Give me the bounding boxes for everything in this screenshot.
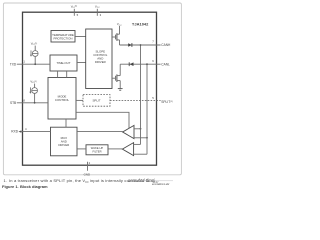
node: STB / I2 junction xyxy=(34,102,36,104)
svg-text:TJA1042: TJA1042 xyxy=(132,21,149,26)
block: temperature protection xyxy=(51,31,75,43)
wire: U1 input from CANH xyxy=(134,128,141,130)
svg-text:Block diagram: Block diagram xyxy=(20,184,48,189)
svg-text:DRIVER: DRIVER xyxy=(58,143,69,147)
wire: U1 input from CANL xyxy=(134,137,147,139)
pin SPLIT xyxy=(152,96,173,104)
block: mux and driver xyxy=(51,127,78,156)
svg-text:GND: GND xyxy=(84,173,90,177)
wire: mode control to mux xyxy=(65,119,67,127)
wire: mode control to SPLIT driver xyxy=(76,99,83,101)
block: time-out xyxy=(50,55,77,71)
pin GND xyxy=(84,161,91,176)
IC boundary box TJA1042 xyxy=(23,12,157,165)
transistor Q2 (low-side NMOS) xyxy=(112,64,120,88)
current source I2 (STB pull-up) xyxy=(29,80,37,103)
svg-text:1.: 1. xyxy=(4,178,7,183)
svg-text:CANH: CANH xyxy=(161,43,171,47)
svg-text:PROTECTION: PROTECTION xyxy=(54,37,73,41)
svg-text:TIME-OUT: TIME-OUT xyxy=(57,61,71,65)
svg-text:CONTROL: CONTROL xyxy=(55,98,70,102)
svg-text:STB: STB xyxy=(10,101,16,105)
svg-text:RXD: RXD xyxy=(11,130,18,134)
wire: time-out to mode control right xyxy=(66,71,68,78)
wire: time-out to mode control left xyxy=(57,71,59,78)
pin CANH xyxy=(152,40,171,48)
block: mode control xyxy=(48,78,76,120)
svg-text:FILTER: FILTER xyxy=(92,149,101,153)
node: CANH wire / U1 input xyxy=(140,128,142,130)
node: CANL line junction xyxy=(146,63,148,65)
watermark xyxy=(128,178,173,186)
svg-text:SPLIT: SPLIT xyxy=(92,99,100,103)
current source I1 (TXD pull-up) xyxy=(30,42,38,65)
wire: temperature protection to slope control xyxy=(75,36,86,38)
diode D2 (CANL) xyxy=(129,62,133,66)
pin VIO top xyxy=(71,4,79,16)
svg-text:DRIVER: DRIVER xyxy=(95,60,106,64)
wire: U2 input from CANL xyxy=(134,153,147,155)
block: slope control and driver xyxy=(86,29,112,89)
wire: CANH vertical bus xyxy=(140,45,142,144)
wire: time-out to slope control xyxy=(77,62,86,64)
pin CANL xyxy=(152,59,170,67)
wire: CANL vertical bus xyxy=(146,64,148,154)
pin RXD xyxy=(11,127,50,134)
pin STB xyxy=(10,98,48,105)
node: CANH line junction xyxy=(140,44,142,46)
svg-text:TXD: TXD xyxy=(10,62,17,66)
wire: mux to wake-up filter xyxy=(77,148,86,150)
transistor Q1 (high-side PMOS) xyxy=(112,33,120,45)
wire: CANH line from Q1 to pin xyxy=(120,44,161,46)
diode D1 (CANH) xyxy=(128,43,132,47)
net label VCC (internal, above Q1) xyxy=(117,22,122,34)
wire: CANL line from Q2 to pin xyxy=(120,63,160,65)
wire: mux to receiver output xyxy=(77,131,123,133)
svg-text:WAKE-UP: WAKE-UP xyxy=(91,146,104,150)
wire: dashed SPLIT net to pin xyxy=(110,99,161,101)
wire: U2 input from CANH xyxy=(134,143,141,145)
pin TXD xyxy=(10,60,50,67)
figure frame xyxy=(3,3,181,175)
svg-text:Figure 1.: Figure 1. xyxy=(2,184,19,189)
node: TXD / I1 junction xyxy=(34,63,36,65)
block: wake-up filter xyxy=(86,145,108,155)
block: SPLIT driver (dashed, optional) xyxy=(83,95,110,107)
wire: mode control to receiver enable xyxy=(76,112,129,128)
svg-text:CANL: CANL xyxy=(161,62,170,66)
svg-text:ammidebmn-abr: ammidebmn-abr xyxy=(152,183,170,186)
op-amp U2 (wake-up comparator) xyxy=(122,143,133,156)
wire: wake-up filter to U2 output xyxy=(108,148,122,150)
pin VCC top xyxy=(95,4,102,16)
node: CANL wire / U1 input xyxy=(146,137,148,139)
op-amp U1 (receiver comparator) xyxy=(123,125,134,138)
ground (below Q2) xyxy=(118,89,123,91)
